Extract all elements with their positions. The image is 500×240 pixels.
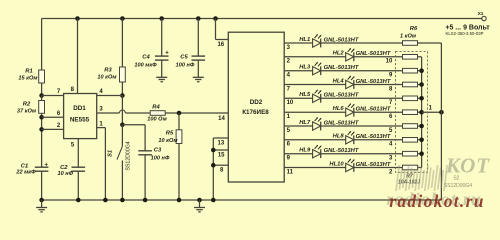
ground symbol C4 bbox=[156, 76, 167, 78]
wire DD2 pin 10 to HL5 bbox=[284, 97, 312, 99]
wire network element 9 to common bbox=[418, 153, 422, 155]
wire rail to C4 bbox=[161, 19, 163, 57]
junction pin15 bbox=[211, 148, 216, 153]
ground symbol left bbox=[41, 200, 43, 208]
wire to switch S1 bbox=[121, 125, 123, 146]
junction R4/R5 bbox=[177, 111, 182, 116]
wire S1 to gnd rail bbox=[121, 161, 123, 201]
svg-text:22 мкФ: 22 мкФ bbox=[15, 170, 36, 176]
wire C2 to gnd rail bbox=[77, 171, 79, 200]
junction gnd rail / C1 bbox=[39, 198, 44, 203]
wire rail to R1 bbox=[41, 19, 43, 71]
capacitor C4 bbox=[155, 55, 169, 57]
svg-text:DD2: DD2 bbox=[250, 99, 263, 106]
svg-text:100 мкФ: 100 мкФ bbox=[134, 63, 157, 69]
svg-text:HL1: HL1 bbox=[299, 37, 310, 43]
switch S1 lever bbox=[117, 146, 122, 159]
LED HL6 GNL-5013HT bbox=[346, 103, 355, 116]
svg-text:radiokot.ru: radiokot.ru bbox=[389, 191, 485, 211]
svg-text:S2: S2 bbox=[453, 175, 459, 181]
svg-text:13: 13 bbox=[218, 140, 225, 146]
svg-text:KLS2-350-3.50-03P: KLS2-350-3.50-03P bbox=[446, 31, 484, 36]
svg-text:10: 10 bbox=[386, 59, 393, 65]
wire rail to pin8 bbox=[77, 19, 79, 94]
wire R4 to DD2 pin14 bbox=[165, 112, 228, 114]
wire C3 to gnd rail bbox=[144, 155, 146, 200]
wire network element 3 to common bbox=[418, 70, 422, 72]
resistor network R7 dashed outline bbox=[396, 51, 428, 172]
resistor R4 bbox=[150, 111, 165, 116]
wire R2 to C1 bbox=[41, 113, 43, 167]
wire ground rail bbox=[42, 199, 442, 201]
svg-text:11: 11 bbox=[287, 169, 294, 175]
wire pin3 to hop bbox=[97, 112, 120, 114]
wire to R2 bbox=[41, 96, 43, 101]
junction rail/pin16 bbox=[213, 16, 218, 21]
svg-text:HL9: HL9 bbox=[299, 148, 311, 154]
svg-text:+: + bbox=[165, 50, 169, 56]
svg-text:C1: C1 bbox=[21, 163, 28, 169]
capacitor C5 bbox=[192, 55, 206, 57]
svg-text:C3: C3 bbox=[154, 148, 162, 154]
resistor network element pin 5 bbox=[403, 124, 418, 129]
junction gnd rail / R5 bbox=[177, 198, 182, 203]
svg-text:HL4: HL4 bbox=[333, 78, 345, 84]
svg-text:X1: X1 bbox=[478, 11, 484, 17]
LED HL4 GNL-5013HT bbox=[346, 76, 355, 89]
ground symbol C5 bbox=[193, 76, 204, 78]
svg-text:HL5: HL5 bbox=[299, 92, 311, 98]
junction network common bbox=[419, 96, 424, 101]
svg-text:К176ИЕ8: К176ИЕ8 bbox=[242, 109, 269, 116]
junction rail/C4 bbox=[159, 16, 164, 21]
svg-text:10 кОм: 10 кОм bbox=[158, 138, 178, 144]
wire pin13 bbox=[213, 137, 228, 139]
wire HL9 cathode to resistor bbox=[321, 153, 403, 155]
junction rail/pin8 bbox=[75, 16, 80, 21]
wire R5 to gnd rail bbox=[178, 144, 180, 201]
wire DD2 pin 6 to HL8 bbox=[284, 139, 346, 141]
svg-text:HL6: HL6 bbox=[333, 106, 345, 112]
wire network element 10 to common bbox=[418, 167, 422, 169]
svg-text:HL3: HL3 bbox=[299, 65, 311, 71]
svg-text:100 нФ: 100 нФ bbox=[151, 156, 170, 162]
wire rail down to pin16 bbox=[215, 19, 217, 40]
wire pin2 bbox=[42, 128, 64, 130]
wire +V top rail bbox=[42, 18, 482, 20]
wire network pin1 common out bbox=[422, 111, 442, 113]
ground symbol center bbox=[199, 200, 201, 208]
resistor R2 bbox=[39, 101, 45, 114]
svg-text:NE555: NE555 bbox=[70, 117, 90, 124]
svg-text:100 Ом: 100 Ом bbox=[147, 117, 167, 123]
wire network element 2 to common bbox=[418, 56, 422, 58]
wire C1 to gnd rail bbox=[41, 171, 43, 200]
LED HL2 GNL-5013HT bbox=[346, 48, 355, 61]
wire DD2 pin 7 to HL4 bbox=[284, 84, 346, 86]
resistor network element pin 8 bbox=[403, 82, 418, 87]
wire rail to C5 bbox=[197, 19, 199, 57]
junction common/ground drop bbox=[439, 110, 444, 115]
resistor network element pin 10 bbox=[403, 55, 418, 60]
svg-text:S1: S1 bbox=[108, 150, 114, 157]
svg-text:HL8: HL8 bbox=[333, 134, 345, 140]
wire R1 to node pin7 bbox=[41, 83, 43, 96]
junction network common bbox=[419, 82, 424, 87]
wire common drop to gnd rail bbox=[440, 43, 442, 200]
svg-text:R4: R4 bbox=[152, 105, 160, 111]
counter DD2 K176IE8 box bbox=[228, 32, 284, 182]
svg-text:SS12D00G4: SS12D00G4 bbox=[126, 141, 132, 170]
op-amp/timer DD1 NE555 box bbox=[64, 94, 97, 139]
wire HL6 cathode to resistor bbox=[354, 111, 403, 113]
wire HL8 cathode to resistor bbox=[354, 139, 403, 141]
wire DD2 pin 2 to HL2 bbox=[284, 56, 346, 58]
junction pin2 node bbox=[39, 127, 44, 132]
resistor R6 bbox=[403, 41, 418, 46]
wire pin4 bbox=[97, 95, 123, 97]
svg-text:15: 15 bbox=[218, 152, 225, 158]
wire down to C3 bbox=[144, 125, 146, 151]
junction pin8 bbox=[211, 163, 216, 168]
wire rail to R3 bbox=[121, 19, 123, 68]
LED HL7 GNL-5013HT bbox=[313, 117, 322, 130]
junction rail/R3 bbox=[120, 16, 125, 21]
resistor network element pin 7 bbox=[403, 96, 418, 101]
wire pin1 down to gnd bbox=[104, 128, 106, 200]
wire network common bus bbox=[421, 57, 423, 168]
svg-text:10: 10 bbox=[287, 100, 294, 106]
svg-text:+: + bbox=[44, 163, 48, 169]
wire R6 to common vertical bbox=[418, 42, 442, 44]
resistor R3 bbox=[120, 67, 126, 82]
wire DD2 pin 3 to HL1 bbox=[284, 42, 312, 44]
LED HL3 GNL-5013HT bbox=[313, 62, 322, 75]
wire DD2 pin 11 to HL10 bbox=[284, 167, 346, 169]
wire HL2 cathode to resistor bbox=[354, 56, 403, 58]
wire HL5 cathode to resistor bbox=[321, 97, 403, 99]
svg-text:R3: R3 bbox=[104, 68, 112, 74]
junction network common bbox=[419, 151, 424, 156]
resistor network element pin 4 bbox=[403, 138, 418, 143]
junction gnd rail / C3 bbox=[143, 198, 148, 203]
capacitor C2 bbox=[72, 166, 86, 168]
wire HL10 cathode to resistor bbox=[354, 167, 403, 169]
svg-text:R5: R5 bbox=[166, 131, 174, 137]
capacitor C1 bbox=[35, 166, 49, 168]
svg-text:DD1: DD1 bbox=[73, 105, 86, 112]
svg-text:14: 14 bbox=[218, 116, 225, 122]
wire pin7 bbox=[42, 95, 64, 97]
resistor network element pin 6 bbox=[403, 110, 418, 115]
wire down to C3 node bbox=[121, 96, 123, 125]
wire hop over S1 line bbox=[119, 110, 125, 113]
LED HL8 GNL-5013HT bbox=[346, 131, 355, 144]
wire network element 7 to common bbox=[418, 125, 422, 127]
junction gnd rail / DD1 pin1 bbox=[103, 198, 108, 203]
svg-text:100 нФ: 100 нФ bbox=[176, 63, 195, 69]
wire network element 5 to common bbox=[418, 97, 422, 99]
wire HL1 cathode to resistor bbox=[321, 42, 403, 44]
wire DD2 pin 5 to HL7 bbox=[284, 125, 312, 127]
LED HL1 GNL-5013HT bbox=[313, 34, 322, 47]
wire pin5 to C2 bbox=[77, 139, 79, 168]
wire DD2 gnd pins down bbox=[212, 138, 214, 200]
wire HL3 cathode to resistor bbox=[321, 70, 403, 72]
wire pin15 bbox=[213, 149, 228, 151]
connector X1 pin circle bbox=[482, 16, 486, 20]
svg-text:10 нФ: 10 нФ bbox=[58, 171, 74, 177]
wire node to C3 bbox=[122, 124, 145, 126]
LED HL5 GNL-5013HT bbox=[313, 89, 322, 102]
svg-text:КОТ: КОТ bbox=[445, 154, 490, 178]
svg-text:C5: C5 bbox=[180, 54, 188, 60]
svg-text:HL2: HL2 bbox=[333, 51, 345, 57]
resistor network element pin 3 bbox=[403, 151, 418, 156]
LED HL10 GNL-5013HT bbox=[346, 159, 355, 172]
wire DD2 pin 9 to HL9 bbox=[284, 153, 312, 155]
junction gnd rail / gnd sym bbox=[197, 198, 202, 203]
wire network element 6 to common bbox=[418, 111, 422, 113]
svg-text:HL10: HL10 bbox=[329, 161, 344, 167]
wire C4 to gnd bbox=[161, 60, 163, 77]
wire network element 4 to common bbox=[418, 84, 422, 86]
svg-text:R1: R1 bbox=[25, 68, 32, 74]
wire pin16 bbox=[216, 39, 229, 41]
svg-text:15 кОм: 15 кОм bbox=[18, 75, 38, 81]
wire C5 to gnd bbox=[197, 60, 199, 77]
svg-text:1 кОм: 1 кОм bbox=[400, 34, 417, 40]
resistor R1 bbox=[39, 70, 45, 83]
wire HL7 cathode to resistor bbox=[321, 125, 403, 127]
wire R3 to pin4 node bbox=[121, 82, 123, 96]
capacitor C3 bbox=[138, 150, 152, 152]
wire network element 8 to common bbox=[418, 139, 422, 141]
wire pin8 DD2 bbox=[213, 164, 228, 166]
watermark gray stripes bbox=[395, 165, 400, 191]
svg-text:37 кОм: 37 кОм bbox=[17, 108, 37, 114]
junction network common bbox=[419, 110, 424, 115]
junction gnd rail / C2 bbox=[76, 198, 81, 203]
wire to R5 bbox=[178, 113, 180, 130]
svg-text:C4: C4 bbox=[142, 54, 150, 60]
resistor network element pin 2 bbox=[403, 165, 418, 170]
junction node R1/R2/pin7 bbox=[39, 93, 44, 98]
wire DD2 pin 4 to HL3 bbox=[284, 70, 312, 72]
wire hop to R4 bbox=[125, 112, 150, 114]
junction pin4/R3/S1 bbox=[120, 93, 125, 98]
LED HL9 GNL-5013HT bbox=[313, 145, 322, 158]
svg-text:HL7: HL7 bbox=[299, 120, 311, 126]
junction gnd rail / DD2 gnd bbox=[211, 198, 216, 203]
wire pin1 right bbox=[97, 127, 106, 129]
wire DD2 pin 1 to HL6 bbox=[284, 111, 346, 113]
junction network common bbox=[419, 68, 424, 73]
wire pin6 bbox=[42, 116, 64, 118]
svg-text:16: 16 bbox=[217, 42, 224, 48]
junction rail/C5 bbox=[196, 16, 201, 21]
junction network common bbox=[419, 138, 424, 143]
resistor network element pin 9 bbox=[403, 68, 418, 73]
junction S1/C3 node bbox=[120, 123, 125, 128]
svg-text:R6: R6 bbox=[410, 26, 418, 32]
svg-text:10 кОм: 10 кОм bbox=[97, 75, 117, 81]
svg-text:C2: C2 bbox=[60, 165, 68, 171]
svg-text:R2: R2 bbox=[23, 102, 31, 108]
wire HL4 cathode to resistor bbox=[354, 84, 403, 86]
junction gnd rail / S1 bbox=[120, 198, 125, 203]
junction pin6 node bbox=[39, 115, 44, 120]
junction network common bbox=[419, 124, 424, 129]
